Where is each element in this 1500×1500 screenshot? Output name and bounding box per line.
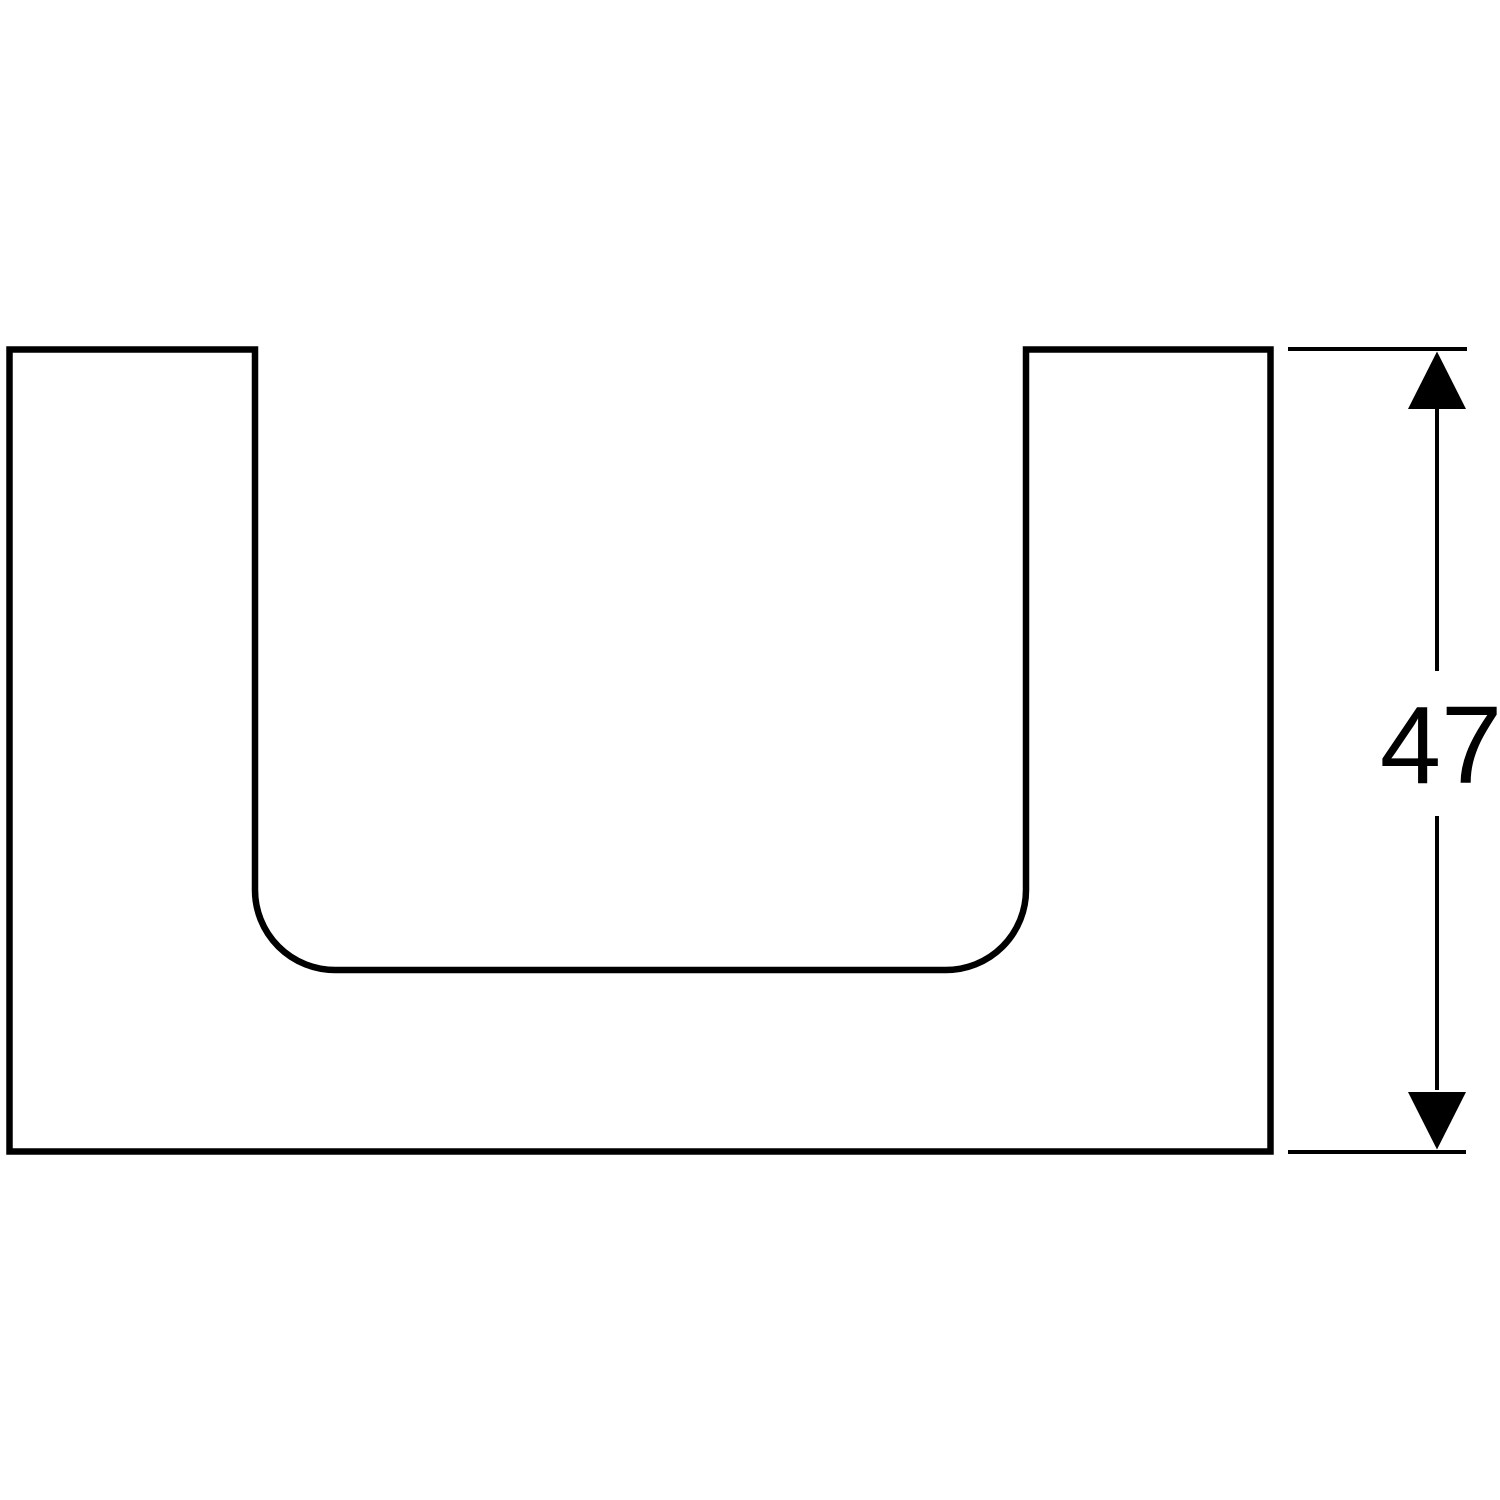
dimension line upper segment <box>1435 407 1439 671</box>
svg-text:47: 47 <box>1380 684 1500 807</box>
dimension line lower segment <box>1435 816 1439 1090</box>
extension line top <box>1288 347 1467 351</box>
U-channel profile outline <box>10 350 1271 1152</box>
arrowhead up <box>1408 352 1466 410</box>
arrowhead down <box>1408 1092 1466 1150</box>
extension line bottom <box>1288 1150 1466 1154</box>
